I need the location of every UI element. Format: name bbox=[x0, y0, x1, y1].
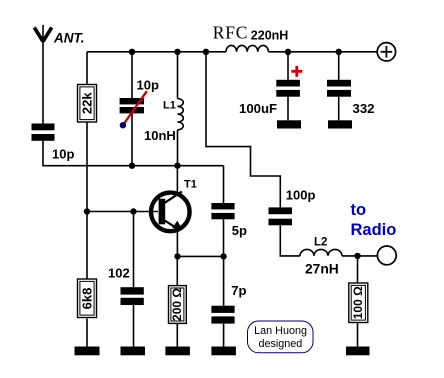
capacitor 10p (antenna) bbox=[32, 124, 55, 141]
svg-text:10nH: 10nH bbox=[144, 128, 176, 143]
node base junction bbox=[84, 208, 90, 214]
svg-text:5p: 5p bbox=[232, 223, 247, 238]
svg-text:102: 102 bbox=[108, 266, 130, 281]
label + (polarity) bbox=[291, 66, 302, 77]
inductor RFC coil bbox=[226, 45, 268, 51]
wire 22k bottom to base junction bbox=[86, 122, 88, 279]
svg-text:10p: 10p bbox=[137, 77, 159, 92]
wire variable cap top bbox=[131, 52, 133, 98]
node top rail 332 bbox=[336, 49, 342, 55]
node top rail staircase bbox=[203, 49, 209, 55]
wire antenna cap to rail2 bbox=[43, 141, 224, 166]
node top rail 100uF bbox=[285, 49, 291, 55]
inductor L2 bbox=[300, 249, 342, 255]
wire L2 to output bbox=[342, 255, 377, 257]
wire 5p bottom bbox=[223, 219, 225, 256]
svg-text:6k8: 6k8 bbox=[80, 288, 95, 310]
capacitor 100p bbox=[269, 207, 293, 225]
wire 7p top bbox=[223, 256, 225, 305]
svg-text:10p: 10p bbox=[52, 147, 74, 162]
wire 102 top bbox=[133, 212, 135, 288]
power terminal + bbox=[377, 43, 395, 61]
ground (200 ohm) bbox=[165, 347, 190, 356]
svg-text:T1: T1 bbox=[184, 178, 197, 190]
svg-text:200 Ω: 200 Ω bbox=[170, 288, 184, 321]
Lan Huong designed box bbox=[248, 321, 314, 353]
wire 6k8 to ground bbox=[86, 319, 88, 348]
capacitor 5p bbox=[211, 203, 234, 219]
resistor 200 ohm bbox=[169, 256, 187, 347]
node output bbox=[354, 253, 360, 259]
wire 22k top bbox=[86, 52, 88, 84]
svg-text:22k: 22k bbox=[80, 92, 95, 114]
wire 5p top bbox=[223, 166, 225, 203]
ground (7p) bbox=[211, 347, 236, 356]
svg-text:100uF: 100uF bbox=[239, 101, 277, 116]
resistor 6k8 bbox=[78, 279, 97, 318]
wire 332 top bbox=[338, 52, 340, 80]
ground (6k8) bbox=[75, 347, 100, 356]
svg-text:RFC: RFC bbox=[213, 23, 248, 43]
ground (100 ohm) bbox=[346, 347, 370, 356]
svg-text:Lan Huong: Lan Huong bbox=[254, 325, 307, 337]
node 102 top bbox=[130, 208, 136, 214]
transistor T1 bbox=[151, 166, 190, 257]
inductor L1 bbox=[178, 99, 184, 130]
node emitter bbox=[174, 253, 180, 259]
resistor 22k bbox=[78, 85, 97, 123]
capacitor 7p bbox=[211, 306, 234, 324]
svg-text:220nH: 220nH bbox=[251, 29, 289, 43]
resistor 100 ohm bbox=[349, 256, 368, 347]
antenna ANT bbox=[34, 25, 51, 124]
svg-text:332: 332 bbox=[353, 101, 375, 116]
wire L1 top bbox=[177, 52, 179, 99]
svg-text:27nH: 27nH bbox=[305, 262, 339, 277]
svg-text:designed: designed bbox=[258, 338, 302, 350]
wire 100uF to ground bbox=[287, 97, 289, 121]
node rail2 varcap bbox=[129, 163, 135, 169]
svg-text:Radio: Radio bbox=[351, 221, 397, 239]
svg-text:to: to bbox=[351, 201, 367, 219]
wire variable cap bottom bbox=[131, 113, 133, 165]
capacitor 102 bbox=[121, 287, 144, 305]
svg-text:ANT.: ANT. bbox=[53, 31, 85, 46]
ground (102) bbox=[121, 347, 146, 356]
node rail2 L1/collector bbox=[174, 163, 180, 169]
ground (332) bbox=[328, 120, 352, 128]
variable capacitor 10p bbox=[120, 91, 147, 128]
svg-text:100 Ω: 100 Ω bbox=[351, 286, 365, 319]
svg-text:7p: 7p bbox=[231, 283, 246, 298]
wire 7p to ground bbox=[223, 324, 225, 347]
base wire bbox=[87, 211, 158, 213]
emitter row wire bbox=[178, 255, 224, 257]
wire 100uF top bbox=[287, 52, 289, 80]
wire staircase to 100p bbox=[206, 52, 280, 208]
output terminal circle bbox=[377, 246, 396, 265]
svg-text:L1: L1 bbox=[163, 99, 176, 111]
node top rail L1 bbox=[174, 49, 180, 55]
capacitor 332 bbox=[327, 80, 351, 97]
node top rail varcap bbox=[129, 49, 135, 55]
wire L1 bottom bbox=[177, 130, 179, 166]
node 5p/7p bbox=[220, 253, 226, 259]
wire 332 to ground bbox=[338, 97, 340, 121]
svg-text:100p: 100p bbox=[286, 187, 316, 202]
ground (100uF) bbox=[277, 120, 301, 128]
top rail wire bbox=[87, 51, 226, 53]
wire 102 to ground bbox=[133, 305, 135, 347]
capacitor 100uF bbox=[276, 80, 300, 97]
svg-text:L2: L2 bbox=[314, 236, 327, 248]
wire 100p bottom to L2 bbox=[280, 225, 300, 256]
